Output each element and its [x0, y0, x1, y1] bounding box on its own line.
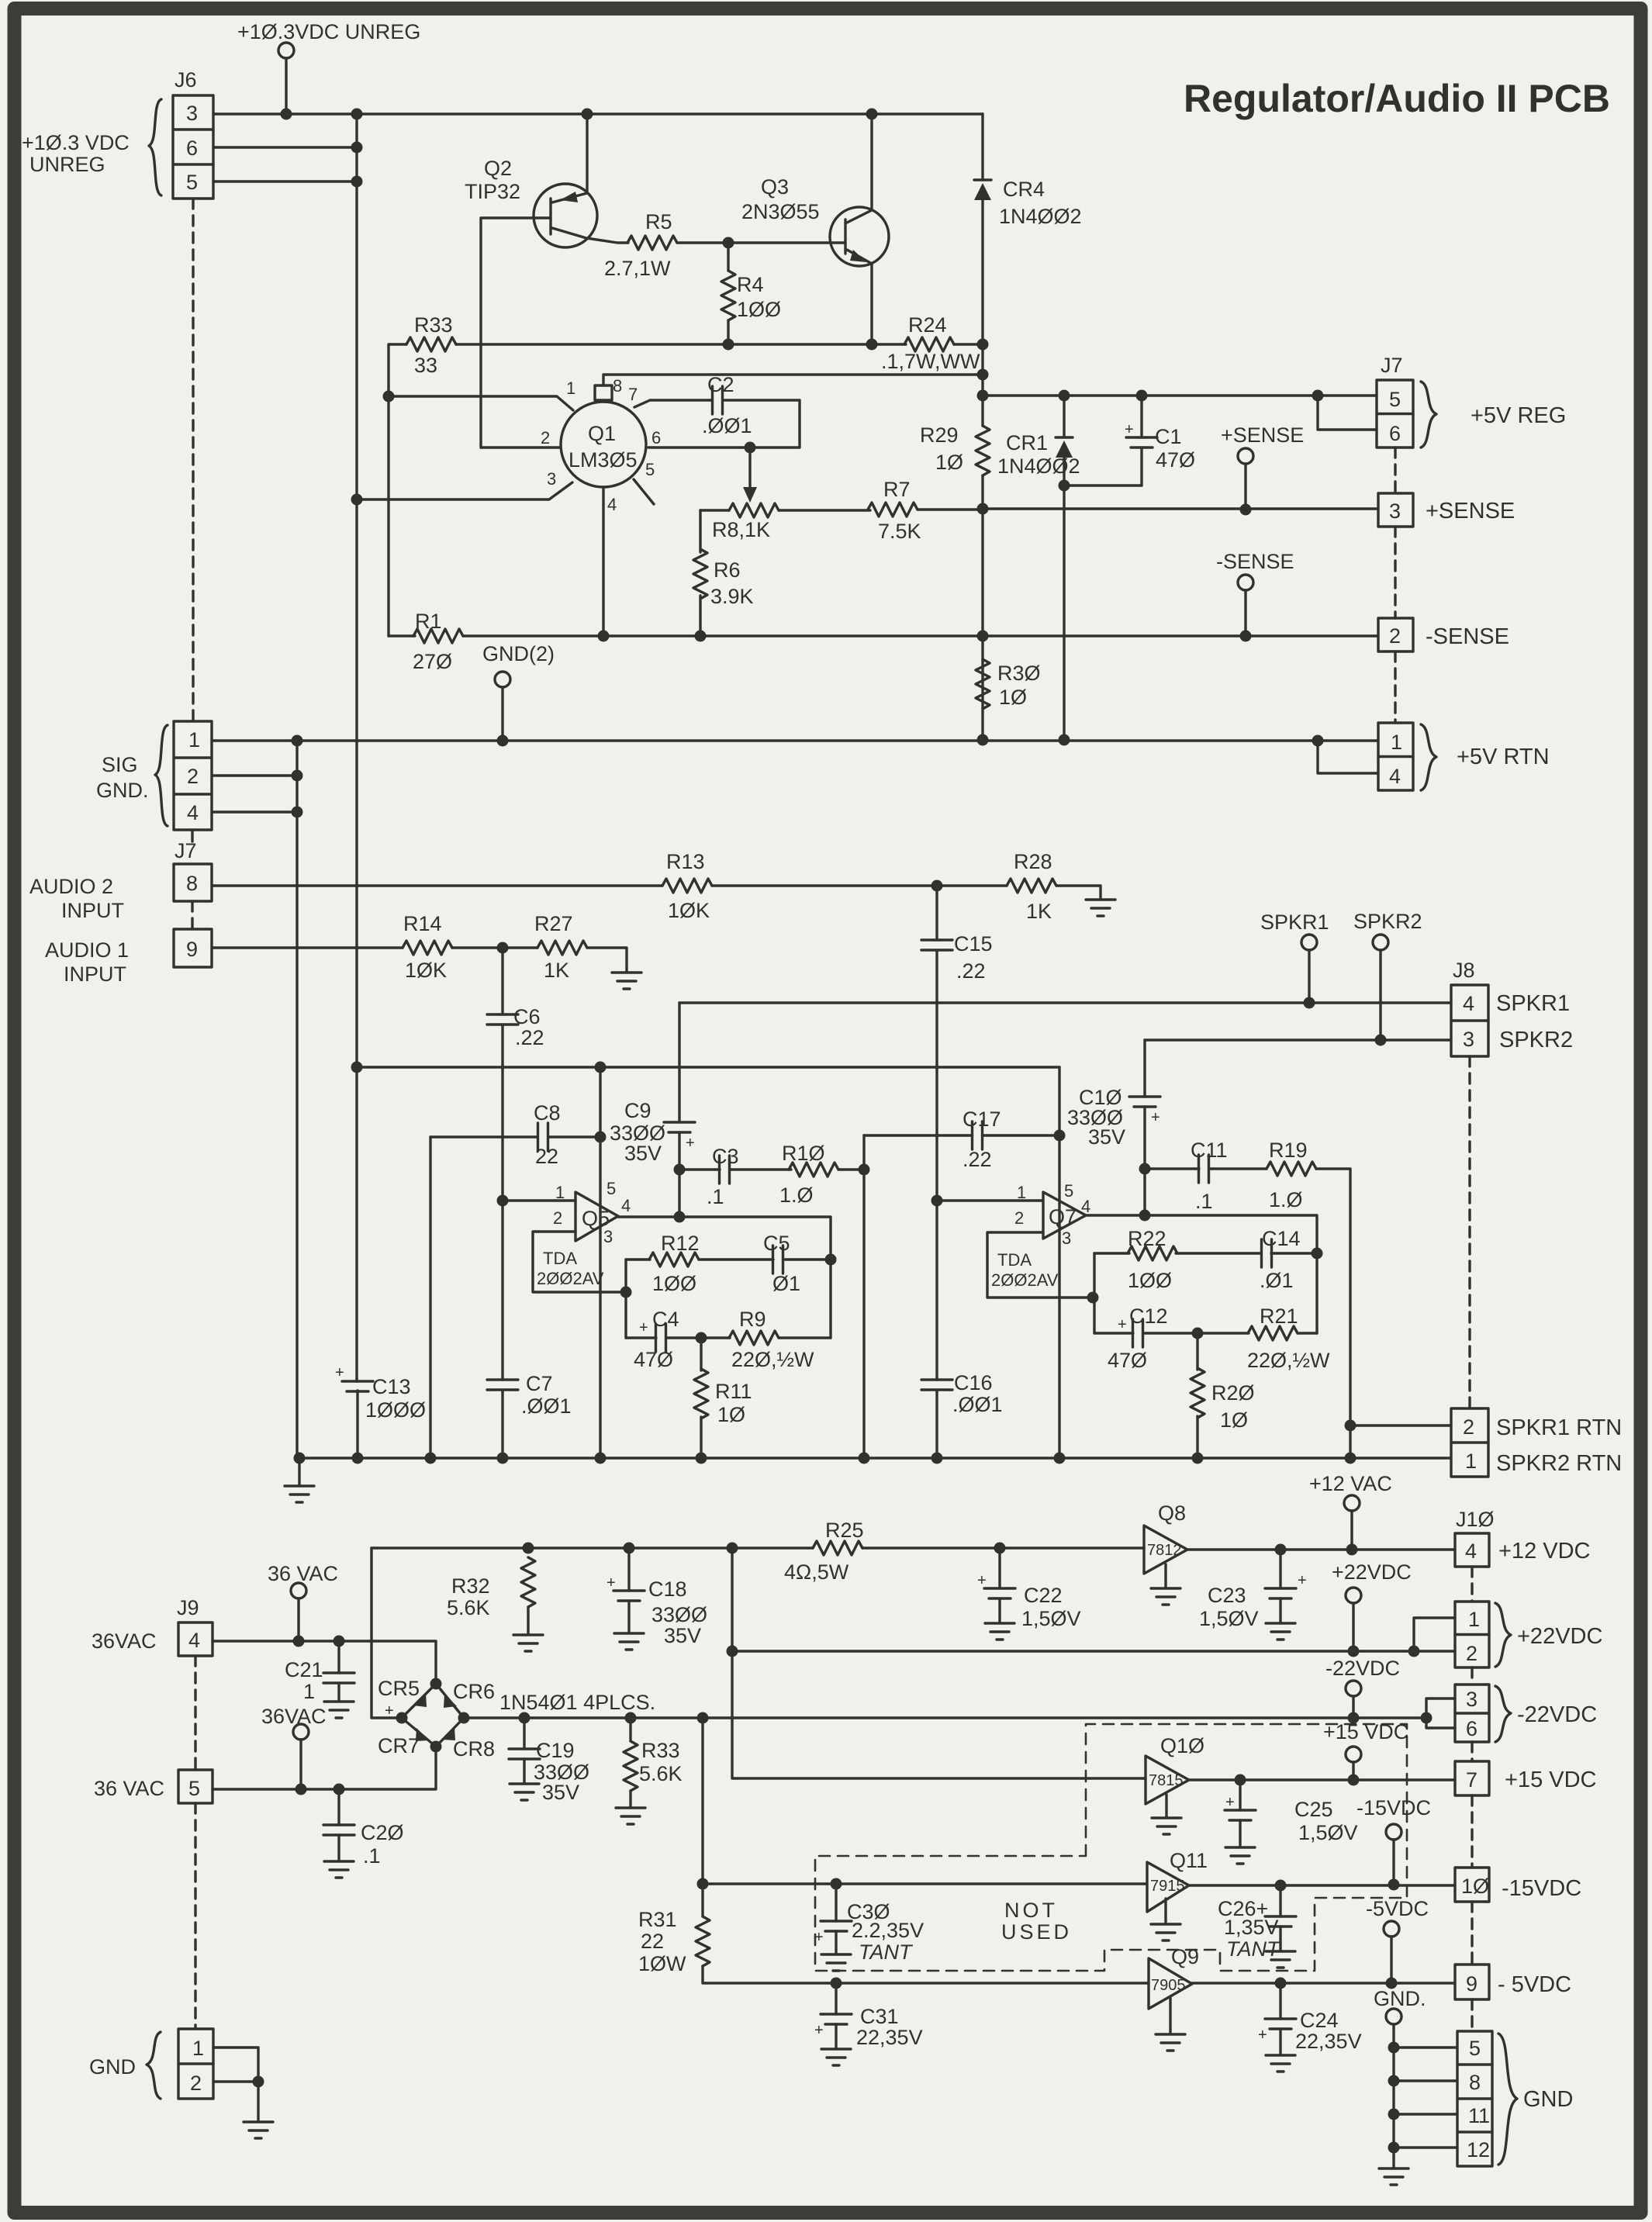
- svg-text:R13: R13: [666, 850, 705, 873]
- ground C26: [1266, 1951, 1295, 1968]
- wire fb left vertical: [624, 1260, 627, 1338]
- node C19 top: [519, 1712, 531, 1724]
- ground rail symbol: [298, 1458, 300, 1484]
- wire Q1 pin3 to bus: [357, 482, 572, 499]
- wire Q7 through line: [1058, 1067, 1060, 1458]
- svg-text:4Ω,5W: 4Ω,5W: [784, 1560, 849, 1584]
- wire R8 to R7: [779, 509, 870, 511]
- wire C16 to rail: [935, 1390, 938, 1458]
- svg-text:1: 1: [188, 728, 200, 752]
- svg-text:2.7,1W: 2.7,1W: [604, 257, 671, 280]
- svg-text:5: 5: [188, 1777, 200, 1800]
- svg-text:2ØØ2AV: 2ØØ2AV: [537, 1269, 604, 1288]
- svg-text:Q1: Q1: [588, 422, 616, 445]
- wire R10 right: [838, 1168, 864, 1170]
- svg-text:Q7: Q7: [1049, 1205, 1077, 1228]
- svg-text:9: 9: [186, 938, 198, 961]
- svg-text:TDA: TDA: [543, 1249, 577, 1268]
- svg-text:6: 6: [186, 136, 198, 160]
- svg-text:+12 VDC: +12 VDC: [1498, 1539, 1590, 1564]
- svg-text:INPUT: INPUT: [61, 899, 124, 922]
- svg-text:C18: C18: [648, 1578, 687, 1601]
- svg-text:+: +: [686, 1135, 695, 1152]
- node C15 top: [931, 880, 943, 892]
- wire -SENSE row: [463, 634, 1378, 637]
- wire to J7 pin6: [1318, 396, 1377, 430]
- wire Q1 pin1: [389, 396, 573, 410]
- node C6 top: [497, 942, 509, 954]
- resistor R20: [1196, 1333, 1198, 1458]
- wire -5 row: [1192, 1982, 1455, 1984]
- svg-text:8: 8: [613, 376, 622, 396]
- node J9 gnd: [253, 2076, 264, 2088]
- svg-text:-15VDC: -15VDC: [1357, 1796, 1431, 1819]
- svg-text:.1: .1: [1195, 1190, 1213, 1213]
- svg-text:1Ø: 1Ø: [999, 686, 1027, 709]
- opamp Q7: [937, 1181, 1090, 1248]
- svg-text:R6: R6: [714, 558, 741, 582]
- box TDA2002AV Q5: [533, 1232, 626, 1292]
- svg-text:+: +: [1118, 1316, 1127, 1333]
- svg-text:9: 9: [1466, 1972, 1477, 1996]
- node C23 top: [1275, 1544, 1287, 1556]
- svg-text:CR6: CR6: [453, 1680, 495, 1703]
- svg-text:-SENSE: -SENSE: [1426, 624, 1509, 649]
- svg-text:1: 1: [303, 1680, 315, 1703]
- svg-text:UNREG: UNREG: [29, 153, 105, 176]
- node R31 top: [697, 1712, 709, 1724]
- wire R28 to ground: [1056, 886, 1101, 898]
- node CR4line bottom: [977, 734, 989, 746]
- svg-text:C31: C31: [860, 2005, 899, 2028]
- connector J10 pins 3/6: [1455, 1685, 1489, 1742]
- node C1 top: [1136, 390, 1148, 402]
- svg-text:5: 5: [1064, 1181, 1073, 1201]
- svg-text:35V: 35V: [664, 1624, 701, 1647]
- svg-text:1: 1: [192, 2037, 204, 2060]
- node Q5 through line: [595, 1062, 607, 1073]
- svg-text:J7: J7: [1381, 354, 1403, 377]
- svg-text:CR4: CR4: [1003, 178, 1045, 201]
- svg-text:-15VDC: -15VDC: [1502, 1876, 1581, 1901]
- svg-text:.ØØ1: .ØØ1: [952, 1393, 1003, 1416]
- diode CR4: [974, 114, 991, 344]
- svg-text:1: 1: [1465, 1450, 1477, 1473]
- svg-text:J1Ø: J1Ø: [1456, 1508, 1495, 1531]
- wire terminal drop: [285, 58, 287, 114]
- node C21 top: [334, 1636, 345, 1647]
- node R33b top: [625, 1712, 637, 1724]
- node C17 right: [1054, 1130, 1066, 1142]
- svg-text:R31: R31: [638, 1908, 677, 1931]
- svg-text:47Ø: 47Ø: [1156, 448, 1195, 472]
- node Q5 output: [674, 1211, 686, 1223]
- svg-text:GND.: GND.: [1374, 1987, 1426, 2010]
- node CR1/C1 bottom: [1059, 480, 1070, 492]
- wire SIG GND bus down: [295, 741, 298, 1458]
- svg-text:1N54Ø1 4PLCS.: 1N54Ø1 4PLCS.: [499, 1691, 655, 1714]
- wire C1 bottom to CR1: [1064, 484, 1142, 486]
- svg-text:+1Ø.3 VDC: +1Ø.3 VDC: [22, 131, 130, 154]
- svg-text:Q8: Q8: [1158, 1501, 1186, 1525]
- svg-text:3: 3: [547, 469, 556, 489]
- node CR1line bottom: [1059, 734, 1070, 746]
- wire Q1 pin8 up and right: [603, 375, 983, 385]
- svg-text:1K: 1K: [544, 959, 569, 982]
- svg-text:5: 5: [607, 1179, 616, 1198]
- svg-text:7812: 7812: [1147, 1542, 1182, 1559]
- svg-text:+: +: [1225, 1794, 1235, 1811]
- svg-text:R1Ø: R1Ø: [782, 1142, 825, 1165]
- svg-text:22Ø,½W: 22Ø,½W: [731, 1348, 814, 1371]
- svg-text:1: 1: [1391, 731, 1402, 754]
- connector J7 pin 3: [1378, 493, 1413, 527]
- svg-text:SPKR1: SPKR1: [1496, 991, 1570, 1016]
- node Q1 pin4: [598, 631, 610, 642]
- svg-text:R11: R11: [715, 1380, 752, 1403]
- wire R12/C5 row: [626, 1258, 831, 1260]
- node R4 top: [723, 237, 734, 249]
- capacitor C7: [487, 1380, 518, 1390]
- ground C25: [1225, 1847, 1255, 1864]
- svg-text:1ØØ: 1ØØ: [737, 298, 781, 321]
- svg-text:36VAC: 36VAC: [261, 1705, 327, 1728]
- wire SIG GND pin1: [212, 739, 297, 741]
- svg-text:22: 22: [641, 1930, 664, 1953]
- svg-text:22: 22: [535, 1145, 558, 1168]
- svg-text:5: 5: [645, 460, 655, 479]
- capacitor C22: [994, 1543, 1006, 1554]
- wire Q7 output row: [1086, 1215, 1317, 1333]
- box TDA2002AV Q7: [987, 1232, 1093, 1298]
- svg-text:33ØØ: 33ØØ: [651, 1603, 707, 1626]
- IC Q1 LM305: [541, 376, 661, 514]
- wire C6 to C7: [501, 1025, 503, 1380]
- svg-text:1ØK: 1ØK: [405, 959, 447, 982]
- svg-text:GND: GND: [1523, 2087, 1573, 2112]
- wire dashed J9 chain: [194, 1656, 196, 2029]
- svg-text:+SENSE: +SENSE: [1426, 499, 1515, 524]
- svg-text:4: 4: [1463, 992, 1474, 1015]
- capacitor C30: [831, 1878, 842, 1890]
- svg-text:2: 2: [190, 2072, 202, 2095]
- svg-text:1N4ØØ2: 1N4ØØ2: [997, 454, 1080, 478]
- svg-text:USED: USED: [1001, 1920, 1072, 1944]
- node R24/CR4 line: [977, 339, 989, 351]
- node TDA Q7 bottom: [1087, 1292, 1099, 1304]
- wire gnd pin11: [1394, 2113, 1457, 2115]
- ground C23: [1266, 1623, 1295, 1640]
- wire to ground: [257, 2082, 259, 2120]
- svg-text:J9: J9: [177, 1596, 199, 1619]
- svg-text:+: +: [1298, 1572, 1307, 1589]
- svg-text:C22: C22: [1024, 1584, 1063, 1607]
- wire to J10 pins3/6: [1426, 1698, 1455, 1728]
- node bus tap supply: [351, 1062, 363, 1073]
- svg-text:R3Ø: R3Ø: [997, 662, 1041, 685]
- capacitor C10: [1143, 1040, 1146, 1097]
- svg-text:C9: C9: [624, 1099, 651, 1122]
- svg-text:CR7: CR7: [378, 1734, 420, 1757]
- svg-text:Ø1: Ø1: [772, 1272, 800, 1295]
- svg-text:2: 2: [1466, 1642, 1477, 1665]
- wire SPKR1 RTN: [1350, 1424, 1451, 1426]
- brace +5V REG: [1421, 382, 1436, 448]
- ground C20: [324, 1861, 354, 1878]
- wire R14 to R27: [452, 946, 537, 949]
- svg-text:+22VDC: +22VDC: [1332, 1560, 1412, 1584]
- wire -15 row: [1189, 1884, 1455, 1886]
- svg-text:.1,7W,WW: .1,7W,WW: [881, 350, 980, 373]
- svg-text:1N4ØØ2: 1N4ØØ2: [999, 205, 1082, 228]
- connector J7 pin 9: [174, 929, 212, 967]
- wire dashed J7 pin8 chain: [191, 831, 193, 929]
- node R20 top: [1192, 1328, 1204, 1339]
- svg-text:.22: .22: [515, 1026, 544, 1049]
- connector SIG GND 1/2/4: [174, 721, 212, 830]
- svg-text:SIG: SIG: [102, 753, 138, 776]
- node pin3 bus: [351, 494, 363, 506]
- svg-text:11: 11: [1468, 2104, 1490, 2127]
- svg-text:.1: .1: [707, 1185, 724, 1208]
- capacitor C26: [1279, 1885, 1281, 1916]
- svg-text:4: 4: [607, 495, 617, 514]
- svg-text:R28: R28: [1014, 850, 1052, 873]
- svg-text:1ØØØ: 1ØØØ: [365, 1398, 426, 1422]
- svg-text:12: 12: [1467, 2138, 1490, 2162]
- svg-text:+: +: [977, 1572, 987, 1589]
- capacitor C9: [678, 1003, 680, 1122]
- brace GND J9: [147, 2032, 161, 2099]
- wire SIG GND pin2: [212, 774, 297, 776]
- svg-text:+: +: [1258, 2027, 1267, 2044]
- connector J10 pin 9: [1455, 1965, 1489, 1999]
- svg-text:R7: R7: [883, 478, 911, 501]
- connector J8 pins 2/1: [1451, 1408, 1488, 1477]
- node CR4line/-SENSE: [977, 631, 989, 642]
- wire +5V REG row: [983, 394, 1377, 396]
- svg-text:+: +: [385, 1702, 394, 1719]
- wire R8 left corner: [700, 509, 729, 511]
- svg-text:35V: 35V: [624, 1142, 662, 1165]
- wire CR4 line down segments: [981, 344, 983, 740]
- wire Q11 input row: [703, 1882, 1147, 1885]
- node C8 right: [595, 1132, 607, 1143]
- svg-text:TIP32: TIP32: [465, 180, 520, 203]
- node +22 branch top: [727, 1543, 738, 1554]
- svg-text:C19: C19: [536, 1739, 575, 1762]
- resistor R8: [729, 503, 779, 517]
- svg-text:.ØØ1: .ØØ1: [521, 1394, 572, 1418]
- svg-text:C5: C5: [763, 1232, 790, 1255]
- svg-text:+: +: [639, 1319, 648, 1336]
- svg-text:.1: .1: [363, 1844, 381, 1868]
- wire C15 down: [935, 950, 938, 1380]
- svg-text:R9: R9: [739, 1308, 766, 1331]
- wire SIG GND pin4: [212, 810, 297, 813]
- wire dashed J10 chain: [1471, 1567, 1473, 2031]
- svg-text:.22: .22: [956, 959, 986, 983]
- capacitor C18: [627, 1548, 630, 1591]
- node R10/C17 line: [859, 1164, 870, 1176]
- node pin1 tap: [383, 391, 395, 403]
- ground C18: [614, 1633, 644, 1650]
- node J10 1/2 tap: [1408, 1646, 1420, 1657]
- node pin4 bus: [292, 807, 303, 818]
- svg-text:R8,1K: R8,1K: [712, 518, 770, 541]
- svg-text:INPUT: INPUT: [64, 962, 126, 986]
- node Q7 pin1: [931, 1195, 943, 1207]
- svg-text:3: 3: [1062, 1228, 1071, 1248]
- svg-text:C24: C24: [1300, 2009, 1339, 2032]
- svg-text:27Ø: 27Ø: [413, 650, 452, 673]
- svg-text:1: 1: [555, 1183, 565, 1202]
- svg-text:35V: 35V: [542, 1781, 579, 1804]
- wire +5V RTN row: [297, 739, 1378, 741]
- wire unreg + top rail: [372, 1546, 1144, 1549]
- wire C17 left vertical: [862, 1135, 865, 1458]
- svg-text:47Ø: 47Ø: [634, 1348, 673, 1371]
- svg-text:TANT: TANT: [859, 1940, 914, 1964]
- ground R32: [513, 1635, 543, 1651]
- svg-text:J7: J7: [175, 839, 197, 862]
- wire 444 row: [456, 343, 906, 345]
- svg-text:1.Ø: 1.Ø: [779, 1184, 814, 1207]
- svg-text:AUDIO 2: AUDIO 2: [29, 875, 113, 898]
- dashed NOT USED outline: [815, 1724, 1407, 1971]
- svg-text:3: 3: [1389, 499, 1401, 523]
- svg-text:+15 VDC: +15 VDC: [1505, 1768, 1596, 1792]
- wire audio ground rail: [299, 1457, 1451, 1459]
- svg-text:R25: R25: [825, 1519, 864, 1542]
- wire gnd pin8: [1394, 2079, 1457, 2082]
- wire left vertical R33 to R1: [389, 344, 406, 636]
- svg-text:+22VDC: +22VDC: [1517, 1624, 1602, 1649]
- svg-text:R1: R1: [415, 610, 442, 633]
- node C2 wiper: [745, 442, 756, 454]
- connector J7 pin 2: [1378, 618, 1413, 651]
- wire rail left down to bridge: [372, 1548, 402, 1718]
- capacitor C31: [831, 1978, 842, 1989]
- svg-text:2N3Ø55: 2N3Ø55: [741, 200, 820, 223]
- svg-text:1ØØ: 1ØØ: [1128, 1269, 1172, 1292]
- wire C13 to rail: [356, 1391, 358, 1458]
- svg-text:1,5ØV: 1,5ØV: [1298, 1821, 1358, 1844]
- svg-text:C2Ø: C2Ø: [361, 1821, 404, 1844]
- ground R27: [612, 973, 641, 989]
- svg-text:R33: R33: [641, 1739, 680, 1762]
- node J7-5/6 tap: [1312, 390, 1324, 402]
- svg-text:C16: C16: [954, 1371, 993, 1394]
- svg-text:C15: C15: [954, 932, 993, 955]
- resistor R11: [700, 1338, 702, 1458]
- brace -22VDC: [1495, 1686, 1511, 1742]
- svg-text:1: 1: [1017, 1183, 1026, 1202]
- ground symbol J9: [244, 2122, 273, 2138]
- svg-text:+: +: [1125, 421, 1134, 438]
- ground symbol main: [1379, 2168, 1408, 2185]
- svg-text:35V: 35V: [1088, 1125, 1125, 1149]
- wire R19 line to rail: [1349, 1425, 1351, 1458]
- svg-text:R4: R4: [737, 273, 764, 296]
- ground C22: [985, 1623, 1014, 1640]
- wire R5 to Q3 base: [677, 241, 845, 244]
- svg-text:J6: J6: [175, 68, 197, 92]
- svg-text:7915: 7915: [1150, 1878, 1185, 1895]
- ground C30: [821, 1954, 851, 1971]
- wire J9 pin5 to bridge bottom: [213, 1747, 436, 1789]
- svg-text:33: 33: [414, 354, 437, 377]
- svg-text:.22: .22: [963, 1148, 992, 1171]
- resistor R4: [721, 271, 735, 320]
- svg-text:Q3: Q3: [761, 175, 789, 199]
- svg-text:R29: R29: [920, 423, 959, 447]
- node rail taps: [294, 1453, 306, 1464]
- svg-text:- 5VDC: - 5VDC: [1498, 1972, 1571, 1997]
- wire J6 pin5: [213, 180, 357, 182]
- connector J7 pins 1/4: [1378, 723, 1413, 790]
- svg-text:3: 3: [1463, 1028, 1474, 1051]
- ground C19: [510, 1784, 539, 1800]
- capacitor C1: [1125, 396, 1157, 486]
- wire Q5 output row: [618, 1217, 831, 1338]
- ground C31: [821, 2049, 851, 2065]
- svg-text:-22VDC: -22VDC: [1325, 1657, 1400, 1680]
- wire audio2 row: [212, 884, 662, 886]
- wire R31 bottom to Q9 row: [703, 1966, 1149, 1983]
- svg-text:-5VDC: -5VDC: [1366, 1897, 1429, 1920]
- svg-text:GND(2): GND(2): [482, 642, 555, 665]
- svg-text:C21: C21: [285, 1658, 323, 1681]
- node C18 top: [624, 1543, 635, 1554]
- wire dashed J6 to SIG GND: [192, 199, 194, 721]
- svg-text:7: 7: [628, 385, 638, 404]
- wire J6 bus down: [355, 114, 358, 1379]
- wire J9 pin1 gnd: [213, 2047, 258, 2082]
- opamp Q5: [503, 1179, 631, 1246]
- node R11 top: [696, 1332, 707, 1344]
- svg-text:2: 2: [541, 428, 550, 448]
- svg-text:7: 7: [1466, 1768, 1477, 1792]
- svg-text:R21: R21: [1260, 1305, 1298, 1328]
- svg-text:+: +: [814, 2022, 824, 2039]
- svg-text:R24: R24: [908, 313, 947, 337]
- svg-text:1.Ø: 1.Ø: [1269, 1188, 1303, 1211]
- wire J9 pin4 to bridge top: [213, 1641, 436, 1684]
- wire gnd pin12: [1394, 2146, 1457, 2148]
- wire R7 right: [918, 508, 983, 510]
- wire Q5 through line: [599, 1067, 601, 1458]
- wire C10 bottom: [1143, 1107, 1146, 1215]
- brace +22VDC: [1495, 1603, 1511, 1667]
- svg-text:1Ø: 1Ø: [717, 1403, 745, 1426]
- connector J10 gnd pins: [1457, 2031, 1492, 2166]
- svg-text:SPKR2: SPKR2: [1353, 910, 1422, 933]
- svg-text:1K: 1K: [1026, 900, 1052, 923]
- svg-text:3.9K: 3.9K: [710, 585, 754, 608]
- wire C9 bottom: [678, 1132, 680, 1217]
- svg-text:1ØØ: 1ØØ: [652, 1272, 696, 1295]
- connector J9 gnd pins 1/2: [178, 2029, 213, 2099]
- svg-text:+SENSE: +SENSE: [1221, 423, 1304, 447]
- wire Q1 pin2: [481, 446, 561, 448]
- svg-text:Q5: Q5: [582, 1207, 610, 1230]
- svg-text:+5V REG: +5V REG: [1471, 403, 1566, 428]
- svg-text:J8: J8: [1453, 959, 1475, 982]
- capacitor C25: [1239, 1780, 1241, 1810]
- svg-text:6: 6: [1389, 422, 1401, 445]
- svg-text:22Ø,½W: 22Ø,½W: [1247, 1349, 1330, 1372]
